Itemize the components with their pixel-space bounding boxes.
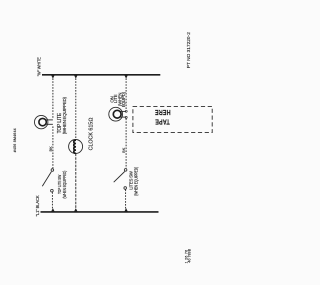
lamp DS2 base xyxy=(113,110,126,118)
svg-text:(WHEN EQUIPPED): (WHEN EQUIPPED) xyxy=(62,96,67,134)
svg-text:HERE: HERE xyxy=(154,108,170,116)
svg-text:BK: BK xyxy=(48,146,53,152)
node W (white neutral bus) xyxy=(42,74,160,76)
svg-text:PT NO 317220-2: PT NO 317220-2 xyxy=(186,32,191,68)
wire: W bus to clock motor xyxy=(75,76,77,140)
switch S1 upper contact xyxy=(51,169,54,172)
lamp DS2 lower terminal xyxy=(125,116,127,118)
svg-text:(WHEN EQUIPPED): (WHEN EQUIPPED) xyxy=(134,166,138,195)
node L1 (black line bus) xyxy=(41,211,159,213)
svg-text:BK: BK xyxy=(121,147,126,153)
wire: switch S1 to L1 bus xyxy=(51,192,53,211)
svg-text:"L1" BLACK: "L1" BLACK xyxy=(35,195,40,216)
junction on W bus at clock branch xyxy=(74,74,78,78)
switch S2 blade xyxy=(114,172,125,183)
svg-text:#456 8M4644: #456 8M4644 xyxy=(13,128,17,152)
wire: W bus to lamp DS1 xyxy=(52,76,54,118)
tape-splice callout box xyxy=(133,106,212,132)
lamp DS2 upper terminal xyxy=(125,110,127,112)
svg-text:40 789B: 40 789B xyxy=(188,248,192,262)
wire: lamp DS1 to switch S1 xyxy=(52,126,54,168)
wire: clock motor to L1 bus xyxy=(75,154,77,212)
wire: switch S2 to L1 bus xyxy=(125,190,127,212)
junction on W bus at branch 1 xyxy=(51,74,55,78)
svg-text:(WHEN EQUIPPED): (WHEN EQUIPPED) xyxy=(63,171,68,199)
clock motor M1 coil xyxy=(74,140,76,153)
wire: lamp DS2 to switch S2 xyxy=(125,119,127,169)
clock motor M1 envelope xyxy=(69,140,83,154)
svg-text:TAPE: TAPE xyxy=(155,117,170,125)
junction on L1 bus at branch 1 xyxy=(51,208,55,212)
lamp DS2 (ON LITE) envelope xyxy=(109,107,123,121)
wire: W bus to lamp DS2 xyxy=(125,76,127,111)
switch S1 blade xyxy=(42,172,51,187)
junction on L1 bus at clock branch xyxy=(74,208,78,212)
svg-text:"W" WHITE: "W" WHITE xyxy=(36,57,41,76)
lamp DS1 (TOP LITE) envelope xyxy=(35,115,48,128)
junction on W bus at branch 2 xyxy=(124,74,128,78)
switch S2 lower contact xyxy=(124,187,127,190)
svg-text:LITES SW: LITES SW xyxy=(129,170,134,190)
svg-text:TOP LITE SW: TOP LITE SW xyxy=(58,174,63,194)
switch S2 upper contact xyxy=(124,169,127,172)
svg-text:CLOCK 615Ω: CLOCK 615Ω xyxy=(89,118,95,151)
switch S1 lower contact xyxy=(51,189,54,192)
lamp DS1 base xyxy=(39,118,53,125)
svg-text:EQUIP'D): EQUIP'D) xyxy=(121,91,126,107)
junction on L1 bus at branch 2 xyxy=(124,208,128,212)
